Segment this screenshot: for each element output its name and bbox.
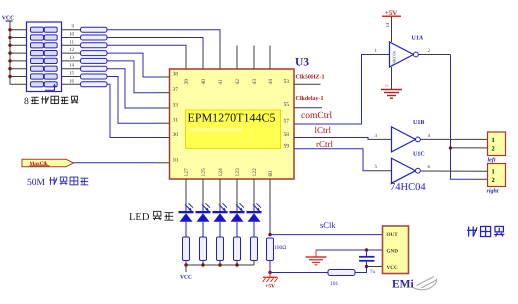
wire: switch to resistor R8 (62, 83, 81, 85)
pin 42 stub (236, 46, 238, 70)
resistor R6 (81, 66, 108, 71)
svg-text:3: 3 (375, 133, 378, 139)
wire: lCtrl to U1B input (294, 138, 370, 140)
svg-text:sClk: sClk (320, 220, 336, 230)
wire: R10 to rail (202, 261, 204, 266)
svg-text:2: 2 (492, 146, 495, 153)
junction rail row 7 (8, 75, 11, 78)
svg-text:LED: LED (129, 212, 150, 223)
resistor R13 (251, 237, 258, 261)
wire: resistor R2 to U3 (107, 38, 203, 46)
svg-text:lCtrl: lCtrl (314, 125, 331, 135)
svg-text:2: 2 (492, 177, 495, 184)
svg-text:55: 55 (284, 102, 290, 108)
wire: switch to resistor R5 (62, 60, 81, 62)
resistor R7 (81, 74, 108, 79)
svg-text:11: 11 (69, 39, 74, 45)
pin 43 stub (253, 46, 255, 70)
wire: +5V node to 101 (270, 272, 328, 274)
inverter U1A (390, 42, 419, 67)
switch SW1 body (8-bit DIP) (27, 22, 62, 92)
svg-text:7n: 7n (370, 269, 376, 275)
resistor R5 (81, 58, 108, 63)
svg-text:VCC: VCC (180, 274, 192, 280)
pin 44 stub (269, 46, 271, 70)
VCC power symbol top-left (2, 16, 15, 22)
svg-text:14: 14 (69, 63, 75, 69)
wire: rail to switch row 6 (10, 68, 27, 70)
svg-text:101: 101 (330, 281, 339, 287)
resistor 101 (328, 270, 355, 276)
junction sClk (268, 233, 271, 236)
resistor R8 (81, 82, 108, 87)
wire: U3 pin 60 down (269, 179, 271, 203)
switch element 3 (31, 43, 58, 48)
wire: rail to switch row 7 (10, 76, 27, 78)
U3 part name box (186, 110, 281, 149)
+5V power symbol bottom (263, 273, 278, 290)
switch element 5 (31, 58, 58, 63)
wire: sClk net (270, 234, 383, 236)
svg-text:left: left (488, 157, 496, 164)
svg-text:7: 7 (385, 84, 391, 87)
wire: R9 to rail (185, 261, 187, 266)
switch element 2 (31, 35, 58, 40)
resistor R1 (81, 27, 108, 32)
svg-text:15: 15 (69, 71, 75, 77)
junction bottom rail (235, 263, 238, 266)
svg-text:U1A: U1A (412, 36, 424, 42)
junction rail row 4 (8, 51, 11, 54)
svg-text:31: 31 (173, 118, 179, 124)
wire: U3 pin to LED D4 (236, 179, 238, 203)
junction cap bottom (365, 265, 368, 268)
svg-text:EPM1270T144C5: EPM1270T144C5 (188, 111, 276, 125)
wire: oscillator GND (316, 249, 383, 251)
svg-text:60: 60 (268, 171, 274, 177)
label: 8-bit toggle switch (24, 96, 78, 107)
svg-text:127: 127 (184, 168, 190, 177)
wire: switch to resistor R6 (62, 68, 81, 70)
svg-text:122: 122 (252, 168, 258, 177)
capacitor C1 (359, 250, 375, 267)
wire: MaxClk to U3 pin 10 (74, 162, 158, 164)
switch element 1 (31, 27, 58, 32)
ground symbol (oscillator) (306, 250, 327, 265)
wire: resistor R4 to U3 (107, 53, 157, 77)
svg-text:VCC: VCC (387, 265, 398, 271)
resistor R12 (234, 237, 241, 261)
+5V power symbol (pin 14) (382, 9, 401, 17)
svg-text:42: 42 (235, 79, 241, 85)
svg-text:14: 14 (385, 23, 391, 29)
resistor R11 (217, 237, 224, 261)
wire: R13 to rail (253, 261, 255, 266)
wire: U3 pin to LED D2 (202, 179, 204, 203)
switch actuator arrow (45, 84, 56, 91)
wire: bottom VCC rail (186, 264, 254, 266)
svg-text:8: 8 (24, 97, 29, 107)
LED D2 (196, 203, 211, 237)
label: LCD panel (467, 226, 477, 236)
LED D3 (213, 203, 228, 237)
wire: rail to switch row 2 (10, 37, 27, 39)
wire: rail to switch row 5 (10, 60, 27, 62)
svg-text:+5V: +5V (265, 284, 275, 290)
junction: bus to left pin2 (449, 146, 452, 149)
junction rail row 6 (8, 67, 11, 70)
label: LED display (129, 211, 173, 223)
wire: switch to resistor R4 (62, 52, 81, 54)
resistor R4 (81, 51, 108, 56)
wire: switch to resistor R3 (62, 44, 81, 46)
junction bottom rail (184, 263, 187, 266)
svg-text:1: 1 (375, 48, 378, 54)
svg-text:U1C: U1C (413, 152, 425, 158)
svg-text:37: 37 (173, 87, 179, 93)
wire: rail to switch row 8 (10, 83, 27, 85)
wire: resistor R3 to U3 (107, 44, 186, 46)
junction rail row 2 (8, 36, 11, 39)
label: 50M active crystal (27, 177, 88, 188)
svg-text:6: 6 (428, 164, 431, 170)
svg-text:1: 1 (492, 169, 495, 176)
junction rail row 3 (8, 44, 11, 47)
svg-text:2: 2 (428, 48, 431, 54)
wire: U1B output to left connector pin 1 (420, 138, 487, 140)
resistor R10 (200, 237, 207, 261)
switch element 8 (31, 82, 58, 87)
switch element 7 (31, 74, 58, 79)
svg-text:rCtrl: rCtrl (316, 139, 333, 149)
junction cap top (365, 248, 368, 251)
wire: rCtrl to U1C input (294, 149, 368, 171)
wire: resistor R6 to U3 (107, 69, 157, 108)
svg-text:125: 125 (201, 168, 207, 177)
connector left (488, 132, 506, 156)
svg-text:OUT: OUT (387, 232, 399, 238)
svg-text:9: 9 (72, 24, 75, 30)
wire: pin 14 (391, 16, 393, 42)
svg-text:13: 13 (69, 55, 75, 61)
wire: U3 pin to LED D5 (253, 179, 255, 203)
svg-text:4: 4 (428, 133, 431, 139)
svg-text:10: 10 (173, 157, 179, 163)
wire: U1C output to right connector pin 1 (420, 170, 487, 172)
wire: bus end to right connector pin 2 (473, 178, 488, 180)
svg-text:16: 16 (69, 78, 75, 84)
svg-text:123: 123 (235, 168, 241, 177)
resistor R9 (183, 237, 190, 261)
LED D1 (179, 203, 194, 237)
wire: R12 to rail (236, 261, 238, 266)
wire: osc VCC pin (367, 266, 383, 268)
switch element 6 (31, 66, 58, 71)
junction rail row 5 (8, 59, 11, 62)
svg-text:100Ω: 100Ω (274, 245, 286, 251)
wire: resistor R5 to U3 (107, 61, 157, 93)
svg-text:12: 12 (69, 47, 75, 53)
svg-text:124: 124 (218, 168, 224, 177)
wire: switch to resistor R7 (62, 76, 81, 78)
wire: R11 to rail (219, 261, 221, 266)
net stub Clkdelay-1 (294, 107, 322, 109)
wire: switch to resistor R2 (62, 37, 81, 39)
svg-text:30: 30 (173, 132, 179, 138)
svg-text:74HC04: 74HC04 (390, 182, 426, 193)
svg-text:59: 59 (284, 143, 290, 149)
svg-text:Clkdelay-1: Clkdelay-1 (296, 95, 324, 102)
wire: resistor R8 to U3 (107, 84, 157, 137)
wire: rail to switch row 1 (10, 29, 27, 31)
svg-text:43: 43 (252, 79, 258, 85)
svg-text:53: 53 (284, 79, 290, 85)
wire: rail to switch row 4 (10, 52, 27, 54)
resistor R2 (81, 35, 108, 40)
svg-text:comCtrl: comCtrl (301, 111, 332, 121)
net stub Clk50HZ-1 (294, 83, 321, 85)
svg-text:41: 41 (218, 79, 224, 85)
svg-text:Clk50HZ-1: Clk50HZ-1 (296, 74, 325, 81)
svg-text:50M: 50M (27, 178, 46, 188)
LED D5 (247, 203, 262, 237)
svg-text:57: 57 (284, 119, 290, 125)
FPGA U3 body (170, 69, 295, 179)
inverter U1B (392, 127, 421, 152)
svg-text:39: 39 (184, 79, 190, 85)
svg-text:U1B: U1B (413, 120, 424, 126)
wire: resistor R1 to U3 (107, 30, 220, 46)
svg-text:74HC04: 74HC04 (392, 50, 397, 65)
VCC power symbol bottom (180, 265, 192, 280)
junction +5V node (268, 271, 271, 274)
wire: comCtrl to U1A input (294, 55, 365, 125)
switch element 4 (31, 51, 58, 56)
svg-text:U3: U3 (295, 57, 309, 69)
junction bottom rail (218, 263, 221, 266)
resistor 100ohm (267, 238, 274, 261)
connector right (488, 164, 506, 187)
wire: bus to left connector pin 2 (451, 147, 488, 149)
wire: output bus vertical (451, 55, 474, 180)
svg-text:58: 58 (284, 132, 290, 138)
inverter U1C (392, 158, 421, 183)
wire: switch to resistor R1 (62, 29, 81, 31)
ground symbol (pin 7) (381, 90, 402, 99)
wire: 101 to cap node (355, 267, 367, 273)
svg-text:right: right (487, 188, 499, 195)
wire: VCC rail vertical (9, 21, 11, 84)
svg-text:10: 10 (69, 32, 75, 38)
resistor R3 (81, 43, 108, 48)
wire: rail to switch row 3 (10, 44, 27, 46)
svg-text:1: 1 (492, 137, 495, 144)
wire: U3 pin to LED D1 (185, 179, 187, 203)
svg-text:44: 44 (268, 79, 274, 85)
wire: pin 7 (391, 67, 393, 89)
wire: U3 pin to LED D3 (219, 179, 221, 203)
svg-text:33: 33 (173, 103, 179, 109)
svg-text:40: 40 (201, 79, 207, 85)
svg-text:GND: GND (387, 249, 399, 255)
junction rail row 1 (8, 28, 11, 31)
oscillator Y1 (383, 226, 409, 274)
wire: resistor R7 to U3 (107, 77, 157, 124)
wire: U1A output (418, 54, 450, 56)
LED D4 (230, 203, 245, 237)
wire: 100ohm to +5V node (269, 261, 271, 273)
svg-text:EMi: EMi (392, 279, 415, 291)
cursor sketch (413, 277, 437, 290)
junction bottom rail (201, 263, 204, 266)
svg-text:5: 5 (375, 164, 378, 170)
port MaxClk flag (22, 159, 74, 167)
svg-text:38: 38 (173, 72, 179, 78)
